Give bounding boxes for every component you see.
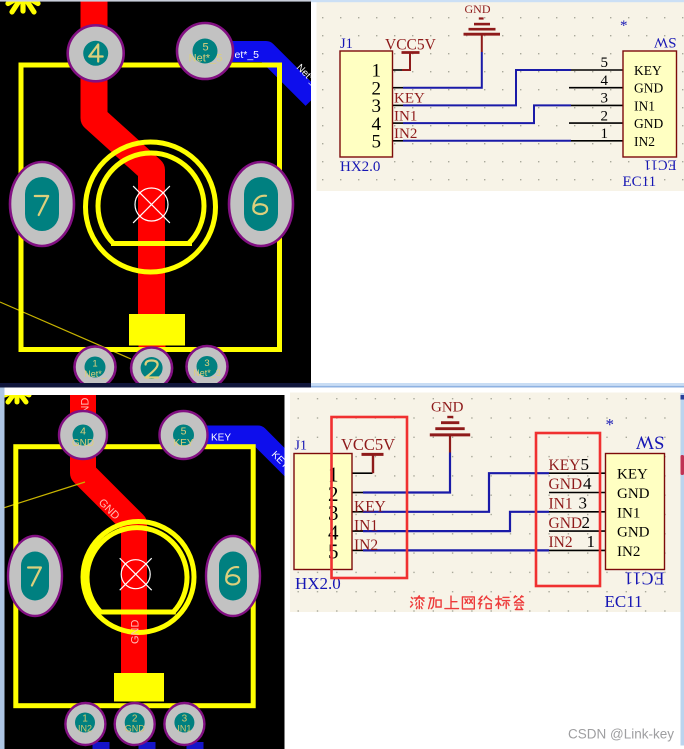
svg-text:GND: GND <box>617 486 650 502</box>
wire pin3 stub (bottom) <box>352 511 363 513</box>
blue trace KEY net (bottom pcb) <box>184 436 299 477</box>
svg-text:IN1: IN1 <box>394 108 417 124</box>
VCC5V power symbol (bottom) <box>362 454 384 473</box>
svg-text:EC11: EC11 <box>623 174 657 190</box>
pad 1 (top pcb) <box>75 347 116 388</box>
svg-text:*: * <box>606 415 615 434</box>
schematic sheet background bottom <box>290 393 681 613</box>
svg-text:GND: GND <box>549 515 583 532</box>
wire pin2 stub (bottom) <box>352 492 363 494</box>
svg-text:GND: GND <box>72 438 94 449</box>
red trace below square to pad2 <box>139 330 166 384</box>
SW pin 2 stub <box>569 122 623 124</box>
svg-text:5: 5 <box>328 540 339 564</box>
pad 3 (top pcb) <box>187 346 228 387</box>
pad 5 (bottom pcb) <box>160 411 208 459</box>
SW pin numbers <box>601 55 609 142</box>
pad 3 (bottom pcb) <box>164 703 204 745</box>
caption: Chinese text 添加上网络标签 drawn as strokes <box>411 596 524 610</box>
GND power symbol (bottom schematic) <box>430 417 470 453</box>
svg-text:GND: GND <box>125 724 146 734</box>
wire IN1 net <box>403 105 571 123</box>
grid dots <box>322 17 683 180</box>
SW pin 2 stub (bottom) <box>549 530 606 532</box>
svg-text:5: 5 <box>181 426 187 438</box>
svg-text:3: 3 <box>601 91 609 107</box>
window top border gradient <box>0 383 311 388</box>
wire pin4 stub <box>393 122 404 124</box>
window left border <box>0 388 5 749</box>
pad 7 (bottom pcb) <box>8 536 62 616</box>
SW pin 5 stub (bottom) <box>549 472 606 474</box>
svg-text:J1: J1 <box>295 439 307 454</box>
selection asterisk marker top-left <box>8 0 38 12</box>
svg-text:SW: SW <box>636 432 665 453</box>
highlight red rect around J1 nets <box>332 417 408 578</box>
scrollbar red mark <box>681 455 684 475</box>
svg-text:VCC5V: VCC5V <box>341 435 395 454</box>
svg-text:KEY: KEY <box>617 467 648 483</box>
svg-text:EC11: EC11 <box>605 592 643 611</box>
wire pin2 to GND <box>403 52 482 88</box>
scrollbar top dark segment <box>681 395 684 400</box>
svg-text:1: 1 <box>92 359 97 370</box>
svg-text:GND: GND <box>634 116 663 131</box>
svg-text:IN1: IN1 <box>634 98 655 113</box>
wire IN2 net (bottom) <box>363 549 549 551</box>
svg-text:GND: GND <box>634 81 663 96</box>
svg-text:IN2: IN2 <box>394 126 417 142</box>
wire KEY net <box>403 70 571 105</box>
yellow courtyard rectangle <box>21 65 280 350</box>
svg-text:Net*_: Net*_ <box>84 369 108 379</box>
yellow inner D-shape bottom <box>87 528 187 612</box>
wire IN2 net <box>403 140 571 142</box>
svg-text:KEY: KEY <box>634 63 662 78</box>
pad 4 (bottom pcb) <box>59 411 107 459</box>
selection asterisk marker bottom-left <box>5 390 29 402</box>
SW pin names (bottom) <box>617 467 650 560</box>
svg-text:IN1: IN1 <box>549 496 573 513</box>
svg-text:4: 4 <box>80 426 86 438</box>
svg-text:4: 4 <box>601 73 609 89</box>
PCB background bottom <box>5 395 285 749</box>
grid dots bottom <box>298 398 666 612</box>
SW pin 3 stub <box>571 104 623 106</box>
svg-text:2: 2 <box>582 513 591 532</box>
highlight red rect around SW nets <box>536 433 600 586</box>
svg-text:KEY: KEY <box>173 438 193 449</box>
svg-text:GND: GND <box>130 620 142 645</box>
J1 pin numbers <box>372 61 382 153</box>
SW pin 5 stub <box>571 69 623 71</box>
drill target cross bottom <box>120 558 152 590</box>
wire pin1 stub J1 <box>393 69 403 71</box>
svg-text:2: 2 <box>601 108 609 124</box>
svg-text:IN2: IN2 <box>78 724 92 734</box>
svg-text:SW: SW <box>653 34 676 50</box>
svg-text:5: 5 <box>372 132 382 153</box>
svg-text:EC11: EC11 <box>644 157 677 173</box>
yellow outer circle <box>86 142 216 272</box>
pad 6 (bottom pcb) <box>206 536 260 616</box>
svg-text:5: 5 <box>601 55 609 71</box>
wire pin5 stub <box>393 140 404 142</box>
chord line of D-shape <box>111 241 192 246</box>
svg-text:4: 4 <box>583 474 592 493</box>
svg-text:IN2: IN2 <box>354 537 378 554</box>
svg-text:et*_5: et*_5 <box>235 49 260 61</box>
svg-text:KEY: KEY <box>354 498 386 515</box>
svg-text:KEY: KEY <box>549 457 581 474</box>
svg-text:GND: GND <box>465 2 491 16</box>
blue stubs under bottom pads <box>93 742 110 749</box>
pad 6 (top pcb) <box>229 162 293 246</box>
wire pin2 to GND (bottom) <box>363 453 450 493</box>
svg-text:GND: GND <box>617 525 650 541</box>
yellow solder square at trace end <box>129 314 185 346</box>
svg-text:IN1: IN1 <box>617 505 640 521</box>
chord line bottom <box>97 610 176 615</box>
svg-text:KEY: KEY <box>211 433 231 444</box>
J1 pin numbers (bottom) <box>328 463 339 564</box>
GND power symbol (top schematic) <box>464 19 501 53</box>
svg-text:IN2: IN2 <box>634 134 655 149</box>
svg-text:EC11: EC11 <box>624 568 664 588</box>
wire pin1 stub J1 (bottom) <box>352 472 373 474</box>
SW pin 4 stub (bottom) <box>549 492 606 494</box>
yellow solder square bottom pcb <box>114 673 164 702</box>
connector J1 body (top) <box>340 51 393 157</box>
svg-text:3: 3 <box>579 494 588 513</box>
svg-text:CSDN @Link-key: CSDN @Link-key <box>568 727 674 742</box>
VCC5V power symbol <box>402 53 420 71</box>
SW pin 3 stub (bottom) <box>549 511 606 513</box>
svg-text:*: * <box>620 18 628 34</box>
schematic sheet background top <box>317 0 684 191</box>
thin silk diagonal line bottom <box>0 482 85 509</box>
pad 1 (bottom pcb) <box>65 703 105 745</box>
yellow inner D-shape circle <box>98 153 204 243</box>
window border accent line <box>311 386 684 388</box>
SW pin 4 stub <box>569 87 623 89</box>
wire pin5 stub (bottom) <box>352 549 363 551</box>
svg-text:1: 1 <box>601 126 609 142</box>
window top edge line <box>0 0 311 2</box>
window right scrollbar <box>681 393 684 746</box>
yellow outer circle bottom <box>83 522 194 633</box>
PCB background top <box>0 0 311 384</box>
pad 2 (bottom pcb) <box>115 703 155 745</box>
svg-text:IN2: IN2 <box>549 534 573 551</box>
svg-text:IN2: IN2 <box>617 544 640 560</box>
svg-text:5: 5 <box>581 455 590 474</box>
svg-text:Net*_5: Net*_5 <box>189 53 223 65</box>
switch SW body (bottom) <box>606 454 665 570</box>
pad 7 (top pcb) <box>10 162 74 246</box>
yellow courtyard rectangle bottom <box>16 447 253 706</box>
pad 5 (top pcb) <box>177 23 233 79</box>
red trace GND net (top pcb) <box>94 0 152 330</box>
svg-text:GND: GND <box>431 400 464 416</box>
svg-text:Net*_3: Net*_3 <box>193 368 221 378</box>
svg-text:1: 1 <box>587 532 596 551</box>
SW pin 1 stub <box>571 140 623 142</box>
svg-text:HX2.0: HX2.0 <box>340 159 380 175</box>
svg-text:KEY: KEY <box>394 91 425 107</box>
wire pin2 stub <box>393 87 404 89</box>
svg-text:GND: GND <box>549 476 583 493</box>
connector J1 body (bottom) <box>294 454 352 570</box>
window white band <box>0 388 684 749</box>
wire pin4 stub (bottom) <box>352 530 363 532</box>
window top light edge <box>311 0 684 2</box>
SW pin 1 stub (bottom) <box>549 549 606 551</box>
svg-text:IN1: IN1 <box>177 724 191 734</box>
switch SW body (top) <box>623 51 677 157</box>
wire IN1 net (bottom) <box>363 512 549 531</box>
pad 2 (top pcb) <box>131 348 172 389</box>
red trace GND net (bottom pcb) <box>83 388 134 692</box>
thin silk diagonal line <box>0 302 131 359</box>
svg-text:IN1: IN1 <box>354 518 378 535</box>
svg-text:J1: J1 <box>340 36 353 52</box>
drill target cross <box>133 186 170 223</box>
blue trace KEY net (top pcb) <box>205 52 313 99</box>
SW pin names <box>634 63 663 149</box>
pad 4 (top pcb) <box>68 25 124 81</box>
wire KEY net (bottom) <box>363 473 549 512</box>
wire pin3 stub <box>393 104 404 106</box>
